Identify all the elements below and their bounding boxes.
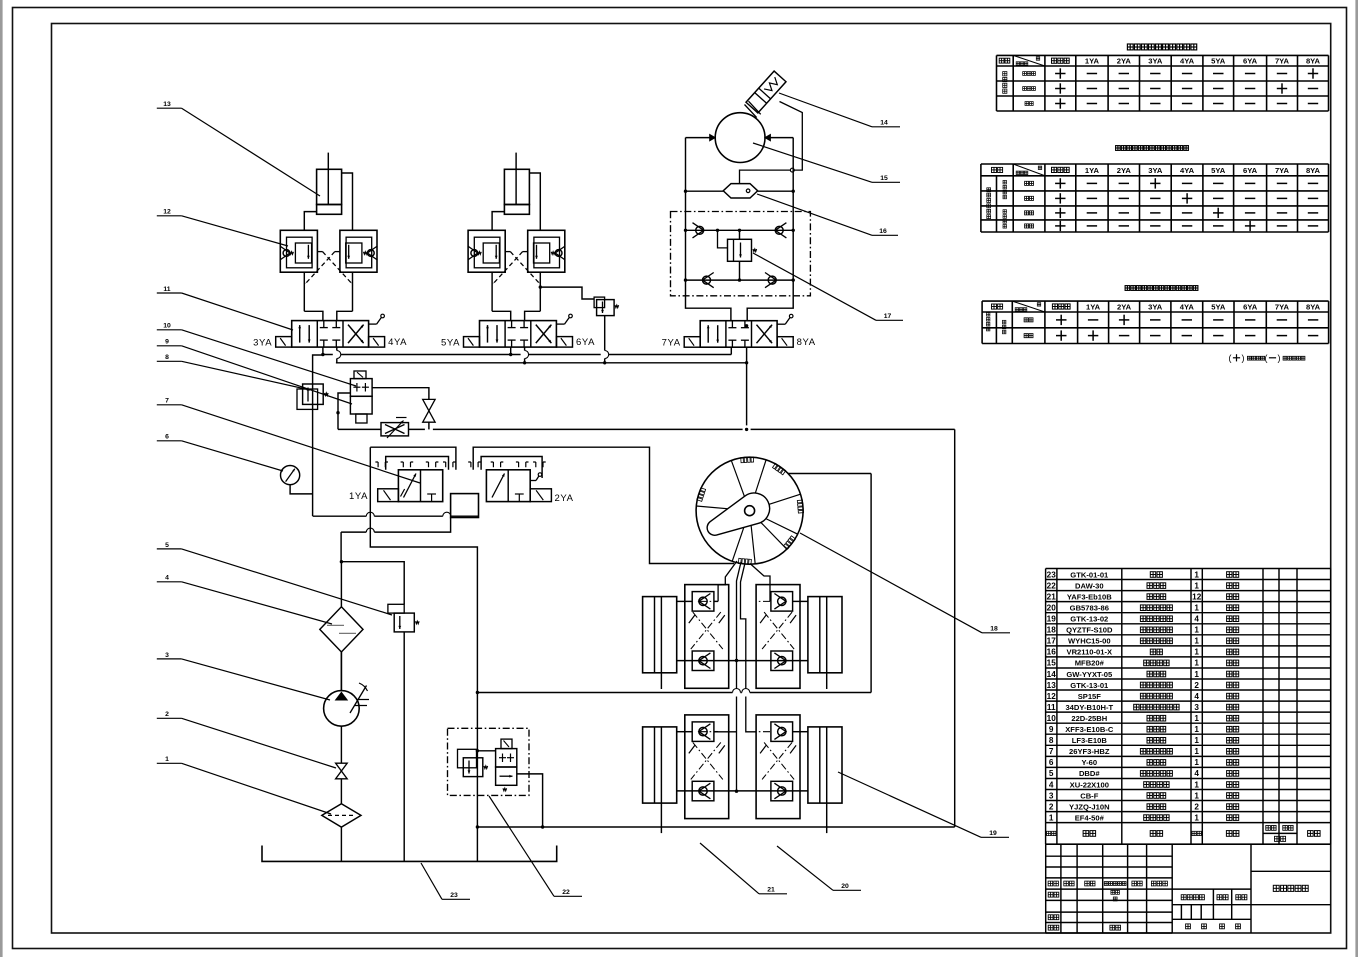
coarse filter 1: [322, 804, 361, 862]
svg-text:1: 1: [1194, 791, 1199, 800]
brake 14 spring-applied brake cylinder: [746, 71, 786, 113]
svg-text:1: 1: [1194, 747, 1199, 756]
svg-text:5: 5: [165, 542, 169, 549]
wire valve top ports: [492, 311, 540, 320]
outrigger cylinder 19 row 1 left: [643, 597, 677, 689]
table: rotary-table valve state grid: [997, 55, 1329, 111]
note: plus means working, minus means not working: [1229, 353, 1305, 363]
table: arm-cylinder valve state grid: [981, 164, 1329, 232]
svg-text:11: 11: [1047, 703, 1056, 712]
cylinder 13 support arm hydraulic cylinder 1: [317, 153, 342, 215]
svg-text:9: 9: [1049, 725, 1054, 734]
leader 10: [157, 323, 356, 386]
outrigger cylinder 19 row 2 right: [808, 727, 842, 833]
svg-text:SP15F: SP15F: [1078, 692, 1102, 701]
leader 21: [700, 843, 787, 894]
svg-text:CB-F: CB-F: [1080, 791, 1098, 800]
wire motor left and right ports: [686, 134, 794, 231]
svg-text:8: 8: [1049, 736, 1054, 745]
svg-text:12: 12: [1047, 692, 1057, 701]
wire outrigger row 1 ports: [677, 601, 808, 660]
svg-text:7: 7: [165, 398, 169, 405]
pressure gauge 6: [281, 466, 313, 494]
leader 17: [753, 253, 903, 320]
svg-text:4: 4: [165, 575, 169, 582]
svg-text:8YA: 8YA: [1306, 166, 1321, 175]
svg-text:2: 2: [165, 711, 169, 718]
table: title block drawing name cell: [1251, 871, 1331, 904]
svg-text:13: 13: [163, 101, 171, 108]
leader 20: [777, 846, 861, 890]
svg-text:16: 16: [879, 228, 887, 235]
wire tank rail T: [336, 362, 747, 364]
svg-text:3: 3: [1049, 791, 1054, 800]
check valves upper row in block 17: [684, 223, 795, 238]
svg-text:2YA: 2YA: [1117, 166, 1132, 175]
svg-text:6: 6: [1049, 758, 1054, 767]
leader 2: [157, 711, 336, 768]
svg-text:14: 14: [880, 120, 888, 127]
leader 11: [157, 286, 293, 330]
svg-text:7: 7: [1049, 747, 1054, 756]
svg-text:22D-25BH: 22D-25BH: [1071, 714, 1107, 723]
pump 3 hydraulic pump: [324, 652, 369, 763]
wire unloading group connections: [476, 691, 545, 862]
svg-text:15: 15: [1047, 659, 1057, 668]
svg-text:GTK-01-01: GTK-01-01: [1070, 570, 1109, 579]
leader 4: [157, 575, 332, 624]
svg-text:10: 10: [1047, 714, 1057, 723]
svg-text:5YA: 5YA: [1211, 57, 1226, 66]
svg-text:3YA: 3YA: [253, 338, 272, 349]
svg-text:DAW-30: DAW-30: [1075, 581, 1104, 590]
svg-text:1: 1: [1194, 725, 1199, 734]
svg-text:6: 6: [165, 434, 169, 441]
svg-text:22: 22: [1047, 581, 1057, 590]
svg-text:5: 5: [1049, 769, 1054, 778]
svg-text:): ): [1242, 353, 1245, 363]
svg-text:1YA: 1YA: [1086, 302, 1101, 311]
solenoid pilot valve 10 inside 22: [496, 739, 517, 791]
svg-text:1: 1: [1194, 626, 1199, 635]
svg-text:9: 9: [165, 339, 169, 346]
valve bottom port wires to rails: [321, 347, 528, 364]
leader 12: [157, 209, 288, 246]
hydraulic lock 20 row 2 left lock: [685, 715, 729, 819]
svg-text:8YA: 8YA: [1306, 302, 1321, 311]
wire shuttle rail: [684, 190, 795, 193]
svg-text:Y-60: Y-60: [1081, 758, 1097, 767]
hydraulic lock 20 row 1 left lock: [685, 585, 729, 689]
motor 15 hydraulic motor: [715, 113, 765, 163]
svg-text:23: 23: [450, 892, 458, 899]
svg-text:19: 19: [989, 830, 997, 837]
svg-text:GW-YYXT-05: GW-YYXT-05: [1066, 670, 1113, 679]
valve block 1YA/2YA outrigger operating valve 7: [375, 462, 551, 518]
svg-text:8YA: 8YA: [1306, 57, 1321, 66]
svg-text:2YA: 2YA: [1117, 57, 1132, 66]
unloading relief valve inside 22: [458, 749, 488, 776]
svg-text:1: 1: [1194, 780, 1199, 789]
svg-text:4: 4: [1194, 615, 1199, 624]
leader 8: [157, 354, 310, 390]
relief valve 5 with drain to tank: [341, 562, 419, 862]
table: title block left grid: [1046, 844, 1173, 933]
svg-text:1: 1: [1194, 813, 1199, 822]
outrigger cylinder 19 row 2 left: [643, 727, 677, 833]
svg-text:5YA: 5YA: [441, 338, 460, 349]
window edge strip right: [1355, 0, 1358, 957]
leader 3: [157, 652, 330, 700]
svg-text:(: (: [1229, 353, 1232, 363]
table: rotary-table valve state diagram title: [1127, 44, 1196, 50]
wire brake pilot line: [740, 102, 803, 184]
shut-off valve 2: [336, 763, 348, 804]
leader 22: [489, 796, 582, 896]
svg-text:23: 23: [1047, 570, 1057, 579]
wire cylinder ports to locks: [304, 173, 352, 230]
svg-text:18: 18: [1047, 626, 1057, 635]
fine filter 4: [320, 562, 363, 691]
svg-text:6YA: 6YA: [576, 337, 595, 348]
svg-text:EF4-50#: EF4-50#: [1075, 813, 1105, 822]
svg-text:1: 1: [1194, 659, 1199, 668]
svg-text:22: 22: [562, 889, 570, 896]
svg-text:1: 1: [165, 756, 169, 763]
svg-text:20: 20: [841, 883, 849, 890]
svg-text:GTK-13-01: GTK-13-01: [1070, 681, 1109, 690]
svg-text:XU-22X100: XU-22X100: [1070, 780, 1109, 789]
svg-text:4: 4: [1194, 692, 1199, 701]
cylinder 13 support arm hydraulic cylinder 2: [504, 153, 529, 215]
svg-text:11: 11: [163, 286, 170, 293]
leader 6: [157, 434, 283, 471]
svg-text:8: 8: [165, 354, 169, 361]
relief valve 8 system relief: [297, 384, 328, 409]
table: bill of materials grid: [1046, 569, 1331, 823]
svg-text:LF3-E10B: LF3-E10B: [1072, 736, 1108, 745]
svg-text:2YA: 2YA: [554, 493, 573, 504]
table: outrigger-cylinder valve state grid: [982, 301, 1329, 343]
svg-text:1: 1: [1194, 581, 1199, 590]
svg-text:6YA: 6YA: [1243, 57, 1258, 66]
wire valve 7YA/8YA bottom ports: [731, 324, 748, 431]
svg-text:4YA: 4YA: [1180, 302, 1195, 311]
svg-text:1YA: 1YA: [1085, 57, 1100, 66]
svg-text:1: 1: [1194, 604, 1199, 613]
svg-text:10: 10: [163, 323, 171, 330]
table: bill of materials header: [1046, 823, 1331, 845]
wire block 17 to valve 7YA/8YA: [686, 230, 794, 320]
svg-text:1YA: 1YA: [349, 491, 368, 502]
leader 19: [838, 772, 1009, 837]
svg-text:18: 18: [990, 626, 998, 633]
table: title block left labels: [1048, 881, 1167, 930]
svg-text:13: 13: [1047, 681, 1057, 690]
svg-text:3: 3: [1194, 703, 1199, 712]
valve 3YA/4YA three-position directional valve body: [276, 314, 385, 347]
relief valve inside block 17: [718, 230, 757, 280]
wire pressure rail P: [322, 354, 731, 356]
table: outrigger-cylinder valve state diagram title: [1125, 286, 1198, 291]
svg-text:4: 4: [1049, 780, 1054, 789]
wire unloader drain line to right side: [338, 428, 955, 430]
pilot check valve arm 1 right: [340, 230, 378, 272]
svg-text:6YA: 6YA: [1243, 166, 1258, 175]
svg-text:1: 1: [1194, 570, 1199, 579]
valve 7YA/8YA three-position directional valve body: [684, 314, 793, 347]
tank 23 oil reservoir: [262, 846, 557, 862]
svg-text:19: 19: [1047, 615, 1057, 624]
wire unloader valve connections: [336, 388, 429, 430]
wire brake rod to motor: [745, 101, 761, 117]
svg-text:1: 1: [1194, 714, 1199, 723]
leader 23: [421, 863, 470, 899]
leader 15: [753, 143, 900, 182]
outrigger cylinder 19 row 1 right: [808, 597, 842, 689]
shuttle valve 16: [723, 184, 758, 198]
wire lock outlet lines: [304, 272, 352, 311]
svg-text:3YA: 3YA: [1148, 166, 1163, 175]
leader 9: [157, 339, 352, 404]
unloading valve group 22 enclosure: [448, 728, 530, 795]
throttle valve 8 on drain line: [381, 418, 409, 439]
svg-text:2: 2: [1194, 802, 1199, 811]
svg-text:): ): [1278, 353, 1281, 363]
svg-text:7YA: 7YA: [1275, 57, 1290, 66]
outrigger distribution valve 18 rotary selector: [696, 457, 803, 565]
svg-text:2YA: 2YA: [1117, 302, 1132, 311]
wire feedback loops above valve block: [370, 447, 734, 563]
wire distributor feed lines to outrigger locks: [714, 561, 770, 793]
pilot check valve arm 2 left: [468, 230, 506, 272]
table: bill of materials rows: [1047, 570, 1239, 822]
wire valve top ports: [304, 311, 352, 320]
shut-off valve on unloader branch: [423, 399, 435, 429]
svg-text:21: 21: [767, 887, 775, 894]
svg-text:MFB20#: MFB20#: [1075, 659, 1105, 668]
table: arm-cylinder valve state diagram title: [1116, 146, 1189, 151]
sequence valve beside arm group 2: [539, 285, 619, 364]
leader 14: [779, 93, 900, 127]
leader 7: [157, 398, 420, 483]
svg-text:3YA: 3YA: [1148, 57, 1163, 66]
svg-text:(: (: [1265, 353, 1268, 363]
svg-text:20: 20: [1047, 604, 1057, 613]
svg-text:7YA: 7YA: [1275, 302, 1290, 311]
pilot check valve arm 1 left: [280, 230, 318, 272]
svg-text:5YA: 5YA: [1211, 302, 1226, 311]
svg-text:4YA: 4YA: [388, 337, 407, 348]
svg-text:2: 2: [1194, 681, 1199, 690]
pilot cross lines: [304, 252, 354, 286]
svg-text:1: 1: [1194, 670, 1199, 679]
wire pump pressure riser: [313, 355, 323, 516]
svg-text:GB5783-86: GB5783-86: [1070, 604, 1109, 613]
valve 5YA/6YA three-position directional valve body: [464, 314, 573, 347]
svg-text:YAF3-Eb10B: YAF3-Eb10B: [1067, 592, 1112, 601]
wire outrigger row 2 ports: [677, 732, 808, 791]
svg-text:12: 12: [1192, 592, 1202, 601]
svg-text:1: 1: [1194, 758, 1199, 767]
svg-text:YJZQ-J10N: YJZQ-J10N: [1069, 802, 1110, 811]
svg-text:1: 1: [1049, 813, 1054, 822]
svg-text:4YA: 4YA: [1180, 57, 1195, 66]
leader 16: [757, 194, 898, 235]
leader 18: [800, 533, 1010, 633]
svg-text:3: 3: [165, 652, 169, 659]
unloader pilot valve 9/10 assembly: [350, 371, 372, 423]
svg-text:34DY-B10H-T: 34DY-B10H-T: [1065, 703, 1113, 712]
check valves lower row in block 17: [684, 273, 795, 288]
window edge strip left: [0, 0, 3, 957]
svg-text:XFF3-E10B-C: XFF3-E10B-C: [1065, 725, 1114, 734]
wire lower return line to legs loop: [477, 429, 954, 827]
svg-text:QYZTF-S10D: QYZTF-S10D: [1066, 626, 1113, 635]
svg-text:5YA: 5YA: [1211, 166, 1226, 175]
svg-text:21: 21: [1047, 592, 1057, 601]
leader 13: [157, 101, 320, 196]
svg-text:4YA: 4YA: [1180, 166, 1195, 175]
svg-text:1: 1: [1194, 637, 1199, 646]
hydraulic lock 20 row 2 right lock: [756, 715, 800, 819]
svg-text:4: 4: [1194, 769, 1199, 778]
svg-text:2: 2: [1049, 802, 1054, 811]
svg-text:8YA: 8YA: [797, 337, 816, 348]
svg-text:WYHC15-00: WYHC15-00: [1068, 637, 1111, 646]
svg-text:VR2110-01-X: VR2110-01-X: [1067, 648, 1113, 657]
svg-text:6YA: 6YA: [1243, 302, 1258, 311]
pilot check valve arm 2 right: [528, 230, 566, 272]
svg-text:7YA: 7YA: [1275, 166, 1290, 175]
svg-text:16: 16: [1047, 648, 1057, 657]
leader 5: [157, 542, 392, 615]
svg-text:1: 1: [1194, 648, 1199, 657]
svg-text:17: 17: [884, 313, 892, 320]
svg-text:1YA: 1YA: [1085, 166, 1100, 175]
wire cylinder ports to locks: [492, 173, 540, 230]
svg-text:17: 17: [1047, 637, 1057, 646]
svg-text:14: 14: [1047, 670, 1057, 679]
svg-text:DBD#: DBD#: [1079, 769, 1100, 778]
wire lock outlet lines: [492, 272, 540, 311]
pilot cross lines: [492, 252, 542, 286]
hydraulic lock 20 row 1 right lock: [756, 585, 800, 689]
buffer valve block 17 enclosure: [671, 212, 811, 296]
svg-text:1: 1: [1194, 736, 1199, 745]
svg-text:3YA: 3YA: [1148, 302, 1163, 311]
svg-text:GTK-13-02: GTK-13-02: [1070, 615, 1108, 624]
svg-text:26YF3-HBZ: 26YF3-HBZ: [1069, 747, 1110, 756]
svg-text:12: 12: [163, 209, 171, 216]
svg-text:7YA: 7YA: [662, 338, 681, 349]
svg-text:15: 15: [880, 175, 888, 182]
table: title block middle grid: [1172, 844, 1251, 933]
leader 1: [157, 756, 331, 814]
wire block lower connections: [313, 447, 479, 728]
